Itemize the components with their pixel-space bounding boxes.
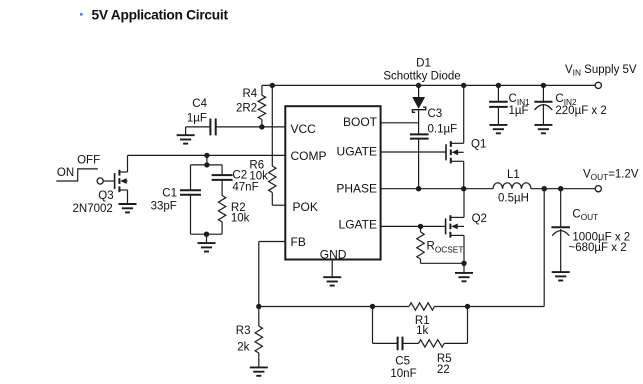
svg-text:PHASE: PHASE	[336, 181, 377, 195]
svg-text:OFF: OFF	[77, 154, 100, 166]
svg-text:5V Application Circuit: 5V Application Circuit	[92, 7, 229, 22]
svg-text:BOOT: BOOT	[343, 115, 378, 129]
svg-text:10k: 10k	[231, 213, 250, 225]
svg-text:C4: C4	[192, 98, 207, 110]
svg-text:22: 22	[437, 364, 450, 376]
svg-text:GND: GND	[320, 247, 347, 261]
svg-text:47nF: 47nF	[232, 182, 258, 194]
svg-text:ON: ON	[57, 167, 74, 179]
svg-text:D1: D1	[416, 58, 431, 70]
svg-text:LGATE: LGATE	[339, 218, 377, 232]
svg-text:C5: C5	[395, 356, 410, 368]
svg-text:0.1µF: 0.1µF	[428, 123, 458, 135]
svg-text:POK: POK	[293, 200, 318, 214]
svg-text:1µF: 1µF	[509, 105, 529, 117]
svg-text:2R2: 2R2	[236, 103, 257, 115]
svg-text:0.5µH: 0.5µH	[498, 193, 529, 205]
svg-text:C1: C1	[162, 188, 177, 200]
svg-text:Q2: Q2	[472, 213, 487, 225]
svg-text:UGATE: UGATE	[337, 145, 377, 159]
svg-text:VCC: VCC	[291, 122, 317, 136]
svg-text:220µF x 2: 220µF x 2	[555, 105, 606, 117]
svg-text:2N7002: 2N7002	[73, 203, 113, 215]
svg-text:COMP: COMP	[291, 149, 327, 163]
svg-text:Q3: Q3	[98, 190, 113, 202]
svg-text:L1: L1	[507, 169, 520, 181]
svg-text:33pF: 33pF	[151, 200, 177, 212]
svg-text:2k: 2k	[237, 341, 249, 353]
svg-text:1µF: 1µF	[187, 113, 207, 125]
svg-text:C3: C3	[428, 108, 443, 120]
svg-text:Schottky Diode: Schottky Diode	[383, 71, 460, 83]
svg-text:1k: 1k	[416, 325, 428, 337]
svg-text:FB: FB	[291, 235, 306, 249]
svg-text:10k: 10k	[249, 171, 268, 183]
svg-text:10nF: 10nF	[390, 368, 416, 380]
svg-text:Q1: Q1	[471, 139, 486, 151]
svg-text:C2: C2	[232, 170, 247, 182]
svg-text:~680µF x 2: ~680µF x 2	[569, 242, 627, 254]
svg-text:R3: R3	[236, 325, 251, 337]
svg-text:R4: R4	[243, 88, 258, 100]
